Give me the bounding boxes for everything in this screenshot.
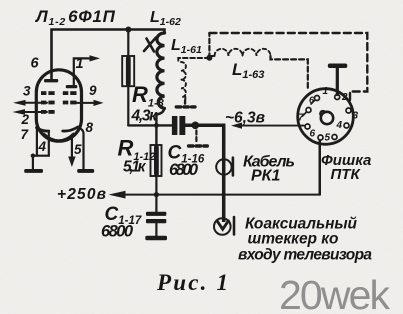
svg-text:5: 5 [74,142,82,157]
electrode: cathode arcs [37,128,49,131]
wire: R1-8 bottom to C1-16 [128,124,172,126]
svg-text:4,3к: 4,3к [131,108,159,125]
electrode: triode anode bar (pin 6) [44,79,58,82]
plug center key [320,111,325,116]
node: junction top wire / R1-8 [125,27,131,33]
pin tick marks [303,101,315,117]
svg-text:1: 1 [76,56,84,72]
svg-text:6: 6 [310,129,316,140]
ground left [24,169,43,173]
wire: pin 5 lead with down arrow [71,135,73,157]
svg-text:~6,3в: ~6,3в [225,110,265,127]
svg-text:6800: 6800 [101,223,134,241]
PTK plug Фишка ПТК [298,89,354,145]
coax plug symbol [214,218,231,235]
wire: grid arrow right (pin 9) [76,102,94,104]
svg-text:20wek: 20wek [279,272,391,314]
plug pin 7 [305,124,310,129]
plug pin 2 [335,95,340,100]
node: junction dashed L1-61/L1-63 [206,55,212,61]
ground right [77,169,94,173]
wire: to left ground [32,156,34,170]
svg-text:9: 9 [89,83,97,98]
svg-text:4: 4 [336,120,343,131]
wire: grid arrow left row2 (pin 3) [23,102,47,104]
wire: dashed top rail [209,33,367,104]
node: junction at L1-62 bottom [154,123,159,128]
electrode: heater arc [44,134,74,141]
resistor R1-12 [151,145,162,176]
adjustment cross X [144,38,156,52]
svg-text:6: 6 [31,56,40,72]
ground under C1-17 [145,236,167,241]
plug pin 1 [315,96,320,101]
wire: pin6 riser and top wire to L1-62 [52,30,165,81]
inductor L1-62 [157,33,165,108]
wire: +250в rail [125,140,320,194]
svg-text:4: 4 [38,139,47,154]
wire: grid arrow left row3 (pin 2) [23,111,47,113]
wire: pin 8 lead to right ground [78,127,84,169]
resistor R1-8 [127,30,129,57]
wire: L1-62 bottom lead [156,108,164,145]
svg-text:2: 2 [21,112,30,127]
svg-text:Рис. 1: Рис. 1 [156,270,228,295]
svg-text:7: 7 [298,113,304,124]
heater arrow ~6,3в [241,125,304,127]
plug pin 3 [346,108,351,113]
electrode: pentode anode bar (pin 1) [66,85,78,88]
wire: pin 4 lead [48,131,50,155]
tube envelope Л1-2 [36,70,81,141]
svg-text:3: 3 [23,84,31,99]
svg-text:штеккер ко: штеккер ко [248,231,339,248]
svg-text:6800: 6800 [169,161,199,179]
svg-text:3: 3 [353,111,359,122]
capacitor C1-17 [155,195,157,212]
svg-text:2: 2 [341,92,348,103]
svg-text:Л1-26Ф1П: Л1-26Ф1П [34,7,116,28]
plug pin 5 [332,135,337,140]
grid dashes row3 [41,110,55,114]
grid dashes row1 [41,91,77,95]
node: junction pin4/7 to ground [31,154,35,158]
plug pin upper-left [306,108,311,113]
wire: pin 7 lead [36,128,38,156]
wire: box4 bottom bar [33,155,49,157]
svg-text:5: 5 [325,133,331,144]
wire: pin 1 lead with arrow [74,58,91,86]
capacitor C1-16 [172,116,178,135]
dashed stem above C1-16 [184,101,186,106]
svg-text:5,1к: 5,1к [123,159,147,176]
inductor L1-63 dashed [208,33,210,58]
capacitor C1-16 output bold wire [185,125,224,222]
svg-text:ПТК: ПТК [331,166,362,183]
cable marker circle Кабель РК1 [216,159,231,174]
svg-text:РК1: РК1 [251,168,281,185]
svg-text:+250в: +250в [57,186,106,203]
plug pin 6 [318,135,323,140]
plug pin 4 [344,123,349,128]
svg-text:входу телевизора: входу телевизора [238,247,372,264]
wire: plug pin 6 down [319,140,321,194]
dashed stem below bold junction [195,131,197,142]
antenna T terminal [328,64,348,69]
svg-text:8: 8 [86,120,94,135]
dashed tie bar under L1-61 [176,105,195,108]
dashed tie bar below [189,144,208,147]
svg-text:1: 1 [323,86,329,97]
node: junction R1-12 / C1-17 [154,192,159,197]
node: bold junction [192,122,200,130]
grid dashes row2 [41,101,77,105]
